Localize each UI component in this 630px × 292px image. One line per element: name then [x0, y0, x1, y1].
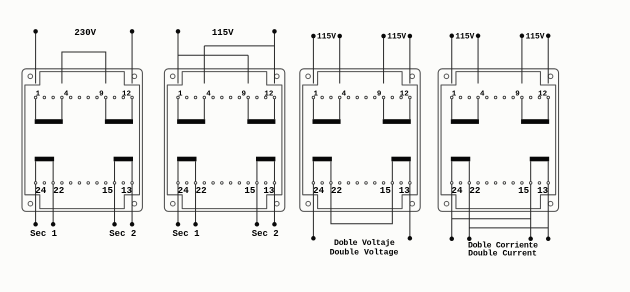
terminal dot: 115V d	[408, 34, 413, 39]
svg-text:Double Current: Double Current	[468, 249, 537, 259]
svg-text:115V: 115V	[455, 32, 474, 41]
wire: 115V terminal to T4 pin 1	[451, 36, 453, 84]
wire: T1 pin 22 to Sec 1	[52, 184, 54, 224]
wire: 115V terminal to T3 pin 12	[409, 36, 411, 84]
wire: 115V terminal to T4 pin 12	[547, 36, 549, 84]
wire: T2 pin 22 to Sec 1	[195, 184, 197, 224]
wire: parallel rail pin 22 to pin 13	[469, 227, 548, 229]
terminal dot: 115V d	[546, 34, 551, 39]
svg-text:115V: 115V	[387, 33, 406, 42]
wire: T3 pin 13 to output	[409, 184, 411, 238]
svg-text:Sec 2: Sec 2	[109, 229, 136, 239]
terminal dot: Sec 2 b	[130, 222, 135, 227]
terminal dot: Sec 2 b	[272, 222, 277, 227]
wire: 115V terminal to T4 pin 9	[521, 36, 523, 84]
wire: T2 pin 15 to Sec 2	[256, 184, 258, 224]
terminal dot: output right	[408, 236, 413, 241]
wire: parallel rail pin 24 to pin 15	[452, 218, 531, 220]
svg-text:115V: 115V	[212, 28, 234, 38]
terminal dot: 115V a	[311, 34, 316, 39]
svg-text:115V: 115V	[317, 33, 336, 42]
wire: 115V terminal to T3 pin 4	[339, 36, 341, 84]
wire: T1 pin 13 to Sec 2	[131, 184, 133, 224]
terminal dot: 115V c	[520, 34, 525, 39]
wire: T1 pin 15 to Sec 2	[114, 184, 116, 224]
terminal dot: output a	[450, 237, 455, 242]
wire: 115V terminal to T4 pin 4	[477, 36, 479, 84]
transformer T3 (double voltage connection)	[300, 69, 420, 212]
terminal dot: 115V b	[476, 34, 481, 39]
terminal dot: Sec 2 a	[112, 222, 117, 227]
svg-text:Doble Voltaje: Doble Voltaje	[334, 238, 395, 248]
svg-text:Sec 2: Sec 2	[252, 229, 279, 239]
terminal dot: Sec 1 b	[193, 222, 198, 227]
terminal dot: output c	[528, 237, 533, 242]
terminal dot: Sec 2 a	[255, 222, 260, 227]
terminal dot: 115V c	[381, 34, 386, 39]
wire: T2 pin 24 to Sec 1	[177, 184, 179, 224]
wire: T4 pin 24 to output	[451, 184, 453, 238]
terminal dot: 115V line left	[176, 29, 181, 34]
wire: T4 pin 15 to output	[530, 184, 532, 238]
terminal dot: output left	[311, 236, 316, 241]
wire: T4 pin 13 to output	[547, 184, 549, 238]
wire: series link pin 22 to pin 15	[331, 184, 392, 223]
svg-text:Sec 1: Sec 1	[172, 229, 200, 239]
terminal dot: 230V line right	[130, 29, 135, 34]
wire: parallel rail pin 4 to pin 12	[204, 45, 274, 47]
terminal dot: Sec 1 b	[51, 222, 56, 227]
terminal dot: Sec 1 a	[33, 222, 38, 227]
wire: 115V terminal to T3 pin 9	[383, 36, 385, 84]
terminal dot: Sec 1 a	[176, 222, 181, 227]
wire: parallel rail pin 1 to pin 9	[178, 54, 248, 56]
wire: 115V terminal to T3 pin 1	[312, 36, 314, 84]
terminal dot: output d	[546, 237, 551, 242]
wire: T1 pin 24 to Sec 1	[35, 184, 37, 224]
wire: T2 pin 13 to Sec 2	[273, 184, 275, 224]
wire: line terminal to T2 pin 1	[177, 31, 179, 83]
wire: line terminal to T1 pin 1	[35, 31, 37, 83]
terminal dot: output b	[467, 237, 472, 242]
wire: T2 pin 9 riser	[247, 55, 249, 83]
wire: T2 pin 4 riser	[203, 46, 205, 84]
terminal dot: 115V b	[337, 34, 342, 39]
svg-text:Sec 1: Sec 1	[30, 229, 58, 239]
svg-text:115V: 115V	[526, 32, 545, 41]
terminal dot: 115V line right	[272, 29, 277, 34]
wire: T4 pin 22 to output	[468, 184, 470, 238]
terminal dot: 115V a	[450, 34, 455, 39]
transformer T4 (double current connection)	[438, 69, 558, 212]
wire: T3 pin 24 to output	[312, 184, 314, 238]
wire: line terminal to T2 pin 12	[273, 31, 275, 83]
svg-text:Double Voltage: Double Voltage	[330, 248, 399, 258]
wire: line terminal to T1 pin 12	[131, 31, 133, 83]
wire: series jumper T1 pin 4 to pin 9	[62, 52, 106, 84]
svg-text:230V: 230V	[74, 28, 96, 38]
transformer T2 (115V parallel connection)	[164, 69, 284, 212]
terminal dot: 230V line left	[33, 29, 38, 34]
transformer T1 (230V series connection)	[22, 69, 142, 212]
